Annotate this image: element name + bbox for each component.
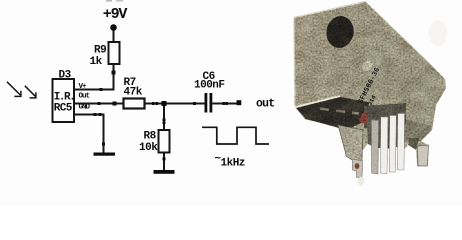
wire R7 to C6 [145,103,205,105]
svg-text:1kHz: 1kHz [221,158,245,170]
top edge highlight [294,2,366,18]
svg-text:R9: R9 [94,45,106,57]
IR light arrow 2 [25,86,37,99]
junction tick on V+ wire [100,88,103,91]
wire junction to R8 [163,106,165,130]
dark underside slot [296,97,372,130]
svg-text:GND: GND [79,104,91,112]
resistor R9 body [109,42,120,64]
notch dark wedge [408,138,419,150]
ground bar R8 [154,170,175,174]
dark gap pin1-2 [379,118,382,148]
capacitor C6 plate 1 [205,93,208,113]
tick on GND vertical [102,143,105,146]
out terminal square [237,100,242,105]
IR light arrow 1 [7,82,21,97]
highlight bottom front edge [295,97,340,108]
tick on Out wire 2 [113,102,117,106]
tick before C6 [193,102,196,105]
svg-text:10k: 10k [139,142,158,154]
metallic dimple [360,59,375,74]
schematic group [7,0,274,174]
lens hole [324,14,356,50]
svg-text:RC5: RC5 [54,103,73,115]
svg-text:D3: D3 [59,70,72,82]
bracket left foot [338,125,363,161]
pin strip 4 [397,114,404,171]
svg-text:+9V: +9V [103,6,128,23]
svg-text:47k: 47k [124,87,143,99]
dark gap pin3-4 [396,114,398,147]
module front face [294,2,366,107]
background smudge [429,20,447,46]
tick on Out wire [98,102,101,105]
pin contacts in slot [320,107,329,111]
double tick after C6 [223,102,226,105]
resistor R8 body [159,130,170,153]
svg-text:out: out [256,98,274,111]
module right side face [363,6,446,143]
capacitor C6 plate 2 [210,93,213,113]
junction tick on R9 wire [112,71,116,75]
resistor R7 body [124,99,145,109]
side face lower shade [399,118,432,142]
foot shadow drip [358,177,364,186]
crop artifact marks [106,0,112,2]
node junction with R8 [162,101,167,106]
right foot tab [418,145,429,166]
tick below R8 [163,158,166,161]
clean pin layer [353,114,429,186]
waveform square wave [202,127,269,144]
wire R8 to ground [163,153,165,171]
tick on GND wire [94,113,97,116]
+9V terminal dot [110,24,117,31]
dark band behind pin tops [364,103,406,128]
module body silhouette [294,2,446,166]
wire R9 to V+ pin [74,64,114,90]
wire C6 to out terminal [212,103,236,105]
bracket foot bright [353,160,363,178]
reddish patch left of pins [361,113,368,124]
pin strip 3 [389,116,396,173]
double tick after R7 [152,102,155,105]
svg-text:100nF: 100nF [194,80,225,92]
wire Out pin to R7 [74,103,124,105]
wire GND pin to ground [74,115,104,153]
tick on GND wire 2 [99,113,102,116]
shadow left of pins [367,122,372,146]
wire +9V dot to R9 [113,31,115,43]
svg-text:R8: R8 [144,131,157,143]
IR receiver D3 box [53,79,75,122]
red dot [359,117,364,122]
svg-text:Out: Out [79,93,90,101]
ground bar D3 [94,153,116,156]
svg-text:1k: 1k [90,56,103,68]
pin strip 2 [380,117,388,174]
brown mark on foot [355,163,360,169]
pin strip 1 [372,120,379,174]
double tick on R8 wire [163,119,166,122]
dark gap pin2-3 [388,116,390,148]
